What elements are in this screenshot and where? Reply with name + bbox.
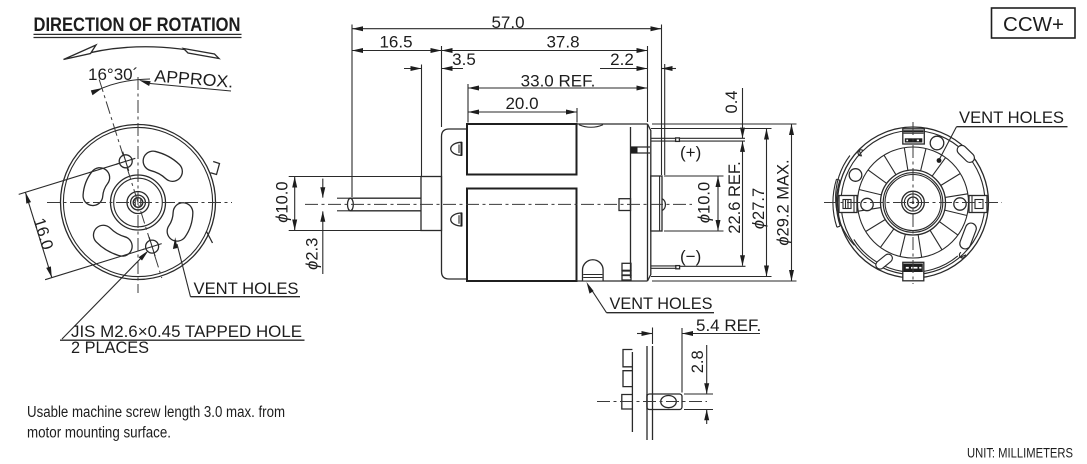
ext boss face bbox=[421, 65, 423, 178]
svg-text:VENT HOLES: VENT HOLES bbox=[959, 109, 1064, 127]
front boss circle bbox=[111, 175, 166, 230]
round hole left-axis bbox=[861, 198, 873, 210]
shaft chamfer circle bbox=[131, 195, 146, 210]
dim 16.0 dimension line bbox=[25, 192, 51, 277]
svg-text:22.6 REF.: 22.6 REF. bbox=[726, 161, 744, 233]
hook detail upper-left bbox=[858, 150, 863, 156]
can-endbell gap crescent top bbox=[579, 125, 603, 128]
flange (front bell) rounded outline bbox=[442, 129, 468, 279]
crimp slot lower-left bbox=[880, 258, 888, 265]
rear boss bbox=[651, 176, 662, 231]
round hole upper-right bbox=[930, 136, 944, 150]
terminal tab bbox=[647, 394, 682, 410]
bearing circle bbox=[127, 192, 149, 214]
tapped hole bottom bbox=[146, 240, 159, 253]
svg-text:(+): (+) bbox=[680, 143, 701, 162]
vent slot bottom bbox=[103, 235, 122, 246]
rim third arc bbox=[836, 156, 855, 246]
ext rear washer bbox=[661, 25, 663, 176]
endbell top line bbox=[577, 123, 648, 125]
svg-text:37.8: 37.8 bbox=[546, 33, 579, 52]
hub center dot bbox=[912, 201, 915, 204]
terminal hole bbox=[661, 396, 677, 408]
hub shaft circle bbox=[908, 197, 919, 208]
svg-text:ϕ10.0: ϕ10.0 bbox=[274, 181, 292, 222]
terminal plus bbox=[651, 137, 745, 139]
rear vent dome bbox=[583, 260, 604, 281]
shaft circle bbox=[133, 198, 143, 208]
vent slot left bbox=[93, 178, 100, 196]
brush bump 1 bbox=[623, 350, 632, 367]
CCW+ box bbox=[992, 8, 1076, 38]
crimp slot lower-right bbox=[965, 229, 971, 244]
dim 16.0 extension line from bottom hole bbox=[45, 249, 144, 280]
endbell face edge lines bbox=[646, 346, 648, 440]
svg-text:Usable machine screw length 3.: Usable machine screw length 3.0 max. fro… bbox=[27, 404, 285, 421]
svg-text:UNIT: MILLIMETERS: UNIT: MILLIMETERS bbox=[967, 446, 1073, 461]
terminal minus bbox=[651, 265, 678, 267]
vertical centerline bbox=[137, 77, 139, 293]
front boss inner ring bbox=[114, 178, 163, 227]
outer inner rim circle bbox=[63, 127, 212, 276]
brush stack bottom bbox=[622, 263, 631, 270]
rotation arrow open head bbox=[64, 45, 97, 60]
hook detail lower-right bbox=[959, 252, 965, 258]
title underline double bbox=[34, 33, 242, 35]
vent slot right-lower bbox=[177, 213, 183, 232]
svg-text:ϕ27.7: ϕ27.7 bbox=[750, 188, 768, 229]
svg-text:0.4: 0.4 bbox=[723, 91, 741, 114]
JIS leader bbox=[62, 253, 146, 339]
dim 16.0 extension line from top hole bbox=[19, 164, 118, 195]
ext endbell rear bbox=[647, 46, 649, 122]
svg-text:2 PLACES: 2 PLACES bbox=[71, 338, 149, 357]
brush bump 3 bbox=[622, 395, 633, 410]
hub ring outer bbox=[881, 170, 946, 235]
brush slot top bbox=[631, 146, 650, 148]
svg-text:2.2: 2.2 bbox=[610, 50, 634, 69]
rim inner circle bbox=[841, 131, 985, 275]
can bottom rectangle bbox=[467, 189, 577, 282]
svg-text:VENT HOLES: VENT HOLES bbox=[194, 280, 299, 298]
round hole upper-left bbox=[849, 169, 862, 182]
right tab bbox=[969, 196, 987, 213]
ext flange face bbox=[441, 46, 443, 127]
angle arc arrowhead right bbox=[139, 80, 151, 86]
svg-text:5.4 REF.: 5.4 REF. bbox=[696, 316, 761, 335]
svg-text:CCW+: CCW+ bbox=[1003, 13, 1064, 36]
vent holes leader left bbox=[177, 244, 191, 297]
svg-text:ϕ10.0: ϕ10.0 bbox=[696, 182, 714, 223]
flange vent bump bottom bbox=[451, 213, 462, 226]
endbell inner vertical bbox=[630, 127, 632, 278]
rear crosshair vertical bbox=[912, 122, 914, 284]
hub boss circle bbox=[902, 191, 925, 214]
round hole right-axis bbox=[954, 198, 966, 210]
outer circle bbox=[61, 125, 216, 280]
can seam notch right bbox=[211, 162, 220, 175]
svg-text:3.5: 3.5 bbox=[452, 50, 476, 69]
horizontal centerline bbox=[47, 202, 232, 204]
endbell rear face bbox=[648, 124, 651, 281]
endbell inner line bbox=[631, 352, 633, 432]
tilted hole axis centerline bbox=[99, 80, 162, 279]
svg-text:20.0: 20.0 bbox=[505, 94, 538, 113]
svg-text:motor mounting surface.: motor mounting surface. bbox=[27, 425, 171, 442]
top block bbox=[903, 129, 925, 144]
svg-text:16°30´: 16°30´ bbox=[88, 65, 138, 84]
rotation arrow arc bbox=[75, 47, 212, 57]
brush bump 2 bbox=[623, 371, 632, 387]
APPROX leader line bbox=[150, 84, 231, 92]
shaft bbox=[350, 197, 421, 199]
svg-text:2.8: 2.8 bbox=[689, 350, 707, 373]
svg-text:ϕ29.2 MAX.: ϕ29.2 MAX. bbox=[775, 159, 793, 245]
endbell bottom line bbox=[577, 280, 648, 282]
vent leader right bbox=[939, 127, 957, 160]
svg-text:VENT HOLES: VENT HOLES bbox=[610, 295, 713, 313]
outer circle bbox=[838, 127, 989, 278]
ext shaft tip bbox=[351, 25, 353, 198]
rotation arrow open tail bbox=[184, 49, 220, 59]
ext can rear bbox=[576, 108, 578, 123]
svg-text:16.5: 16.5 bbox=[379, 33, 412, 52]
ext can front bbox=[467, 84, 469, 123]
fan spokes bbox=[945, 194, 968, 198]
commutator block bbox=[619, 199, 631, 211]
front bearing boss bbox=[421, 177, 442, 231]
fan outer ring bbox=[858, 147, 969, 258]
angle dimension arc bbox=[95, 79, 150, 92]
rear shaft tip bbox=[662, 199, 665, 211]
can seam notch lower-right bbox=[207, 232, 213, 244]
left can edge arc bbox=[836, 180, 840, 226]
rear crosshair horizontal bbox=[824, 202, 1002, 204]
detail centerline bbox=[597, 401, 707, 403]
hub ring inner double bbox=[883, 173, 943, 233]
tapped hole top bbox=[119, 155, 132, 168]
flange vent bump top bbox=[451, 142, 462, 155]
svg-text:DIRECTION OF ROTATION: DIRECTION OF ROTATION bbox=[34, 15, 241, 36]
shaft tip cap bbox=[348, 198, 354, 211]
can top rectangle bbox=[467, 124, 577, 175]
crimp slot upper-right bbox=[962, 150, 970, 158]
JIS underline bbox=[60, 339, 305, 341]
main centerline bbox=[305, 203, 692, 205]
bottom block bbox=[903, 262, 924, 281]
svg-text:ϕ2.3: ϕ2.3 bbox=[304, 238, 322, 270]
hub bearing circles bbox=[904, 194, 921, 211]
svg-text:(−): (−) bbox=[680, 247, 701, 266]
left tab bbox=[839, 196, 857, 213]
vent slot top-right bbox=[153, 161, 173, 172]
angle arc arrowhead left bbox=[91, 88, 103, 95]
